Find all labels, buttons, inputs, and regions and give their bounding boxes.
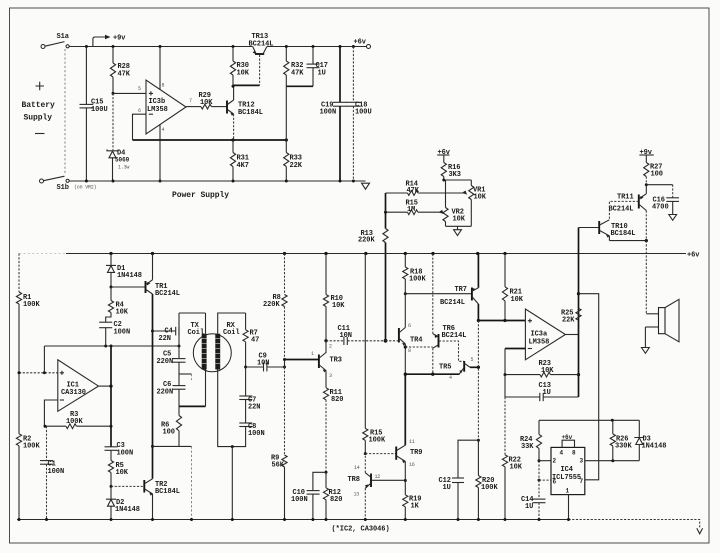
wire IC3b inverting input step [133, 114, 147, 140]
wire IC1 output column [109, 346, 112, 447]
svg-text:1: 1 [566, 488, 570, 495]
svg-text:4K7: 4K7 [237, 162, 249, 170]
Power Supply title [172, 191, 229, 200]
wire TR12 emitter column [233, 114, 235, 140]
svg-text:220K: 220K [263, 301, 280, 309]
svg-text:100N: 100N [48, 468, 65, 476]
svg-text:33K: 33K [521, 443, 534, 451]
svg-text:6: 6 [138, 108, 141, 114]
wire TR6 collector drop [432, 348, 434, 374]
resistor R31 [230, 140, 249, 181]
svg-text:10N: 10N [257, 360, 269, 368]
svg-text:LM358: LM358 [529, 338, 550, 346]
resistor R5 [108, 461, 128, 487]
wire pin2 [539, 460, 551, 462]
svg-text:Battery: Battery [22, 101, 56, 110]
wire TR9 collector riser [404, 374, 406, 445]
svg-text:8: 8 [572, 450, 576, 457]
wire RX coil bottom return [218, 370, 233, 447]
wire emitter bus y374 [405, 373, 459, 376]
battery - terminal [40, 179, 44, 183]
svg-text:10K: 10K [541, 367, 554, 375]
resistor R11 [323, 371, 343, 473]
svg-text:100: 100 [163, 429, 175, 437]
wire pot box top [444, 179, 472, 181]
node R27 bottom [645, 183, 648, 186]
transistor TR6 BC214L (IC? mirrored) [433, 325, 467, 348]
IC4 +6v supply bracket [562, 434, 575, 447]
resistor R21 [502, 254, 523, 323]
svg-text:1: 1 [311, 351, 314, 357]
svg-text:820: 820 [330, 496, 342, 504]
svg-text:TR9: TR9 [410, 449, 422, 457]
wire IC4 pin1 to 0v [568, 495, 570, 520]
svg-text:1K: 1K [411, 503, 420, 511]
wire R32/C17 bottom join [286, 86, 313, 140]
resistor R23 feedback [505, 360, 579, 377]
wire speaker feed column [646, 241, 658, 314]
svg-text:4: 4 [449, 375, 452, 381]
wire IC3a output column [577, 228, 580, 398]
resistor R33 [284, 140, 303, 181]
wire feedback bus y140 [133, 138, 288, 141]
resistor R2 [16, 373, 40, 520]
svg-text:TR5: TR5 [439, 364, 451, 372]
svg-text:Coil: Coil [188, 329, 205, 337]
svg-text:BC214L: BC214L [440, 299, 465, 307]
wire TR1 collector column [151, 294, 154, 479]
svg-text:22K: 22K [562, 317, 575, 325]
wire +6v regulated rail (PS right) [267, 45, 367, 48]
wire TX tank bottom [179, 405, 206, 407]
node R14/R15 join [384, 211, 387, 214]
resistor R30 [230, 47, 249, 87]
supply stub +9v above R27 [639, 149, 653, 163]
resistor R15 (VR2 wiper feed) [386, 200, 441, 215]
resistor R12 [323, 472, 342, 519]
wire TR11 emitter up [645, 185, 647, 194]
capacitor C2 [99, 321, 130, 346]
svg-text:6: 6 [408, 323, 411, 329]
svg-text:5: 5 [138, 86, 141, 92]
node R28/zener/+input [112, 92, 115, 95]
wire IC3a output [565, 334, 578, 336]
wire TR1 emitter up [152, 254, 154, 280]
wire IC3b V- pin [159, 124, 162, 182]
wire TR13 base (dotted) [233, 55, 260, 86]
wire IC3a - input [504, 349, 526, 377]
transistor TR3 (IC2) [311, 344, 342, 380]
svg-text:BC184L: BC184L [611, 230, 636, 238]
svg-text:5069: 5069 [115, 157, 130, 164]
wire TR8 collector riser [364, 454, 366, 473]
wire TR9 base [365, 453, 396, 455]
wire TR5 collector [470, 366, 480, 369]
node R18/TR4 collector/TR7 base [404, 292, 407, 295]
svg-text:2: 2 [553, 458, 557, 465]
svg-text:8: 8 [162, 83, 165, 89]
svg-text:IC3b: IC3b [149, 98, 166, 106]
svg-text:BC214L: BC214L [442, 332, 467, 340]
resistor R26 [610, 420, 632, 460]
wire positive feedback riser [43, 346, 45, 373]
svg-text:10K: 10K [511, 296, 524, 304]
node TR3 collector [324, 339, 327, 342]
svg-text:10K: 10K [453, 216, 466, 224]
transistor TR13 BC214L [249, 33, 274, 54]
resistor R7 [243, 313, 259, 367]
op-amp IC3a LM358 [525, 309, 565, 360]
wire IC1 output [99, 385, 112, 387]
svg-text:IC4: IC4 [561, 466, 573, 474]
resistor R10 [323, 254, 345, 341]
capacitor C12 [439, 440, 479, 519]
resistor R27 [644, 163, 663, 185]
diode D3 [634, 420, 666, 460]
resistor R3 feedback [44, 411, 113, 429]
resistor R32 [284, 47, 305, 87]
svg-text:100K: 100K [66, 418, 83, 426]
svg-text:5: 5 [471, 357, 474, 363]
transistor TR2 BC184L [144, 479, 180, 496]
svg-text:220N: 220N [157, 389, 174, 397]
svg-text:Power Supply: Power Supply [172, 191, 229, 200]
capacitor C10 [291, 472, 326, 519]
wire IC3a + input [478, 320, 525, 322]
svg-text:BC214L: BC214L [609, 206, 634, 214]
capacitor C16 [652, 185, 679, 215]
node R7/C9/C7 [244, 366, 247, 369]
svg-text:100K: 100K [23, 301, 40, 309]
wire tap column to 0v [191, 374, 193, 520]
wire IC1 + input [18, 371, 58, 374]
svg-text:TR3: TR3 [330, 357, 342, 365]
node pins 2-6 tie [538, 459, 541, 481]
wire zener column (dotted) [112, 93, 114, 150]
transistor TR12 BC184L [227, 100, 263, 117]
wire TR4 emitter column [404, 344, 407, 376]
node TR3 emitter / C10 / R12 [325, 471, 328, 474]
svg-text:+6v: +6v [687, 252, 700, 260]
resistor R9 [271, 367, 287, 520]
ground C16 [669, 215, 677, 221]
resistor R8 [263, 254, 287, 360]
svg-text:100N: 100N [291, 496, 308, 504]
battery supply label [22, 82, 56, 134]
svg-text:S1a: S1a [57, 33, 70, 41]
wire RX/C8 node to 0v [231, 445, 234, 519]
wire TR11 collector down [645, 211, 647, 241]
svg-text:+9v: +9v [113, 35, 126, 43]
svg-text:BC184L: BC184L [155, 488, 180, 496]
potentiometer VR2 [438, 180, 466, 226]
transistor TR1 BC214L [146, 280, 180, 298]
capacitor C15 [80, 47, 108, 182]
transistor TR11 BC214L [609, 194, 647, 214]
svg-text:47: 47 [251, 337, 259, 345]
svg-text:1U: 1U [525, 503, 533, 511]
resistor R22 [502, 397, 522, 520]
wire TR10 base from IC3a output column [579, 227, 600, 229]
resistor R16 [441, 163, 461, 181]
resistor R6 [161, 406, 182, 446]
svg-text:820: 820 [331, 396, 343, 404]
capacitor C4 [153, 327, 180, 343]
svg-text:1N4148: 1N4148 [642, 443, 667, 451]
resistor R28 [110, 47, 130, 94]
wire TR8 base [371, 479, 405, 481]
op-amp IC1 CA3130 [58, 360, 99, 412]
svg-text:22N: 22N [248, 404, 260, 412]
resistor R18 [403, 254, 427, 294]
svg-text:10K: 10K [116, 469, 129, 477]
resistor R1 [16, 254, 40, 373]
svg-text:10K: 10K [332, 302, 345, 310]
svg-text:BC184L: BC184L [238, 109, 263, 117]
svg-text:16: 16 [409, 462, 415, 468]
transistor TR8 (IC2, mirrored) [348, 465, 381, 498]
wire 0v PS rail [69, 180, 365, 183]
capacitor C3 [105, 442, 134, 461]
transistor TR9 (IC2) [396, 439, 422, 468]
TX coil winding [179, 313, 207, 406]
wire TR3 base [285, 359, 319, 361]
svg-text:56K: 56K [272, 462, 285, 470]
wire TR4 collector riser [404, 294, 406, 328]
capacitor C13 feedback [505, 375, 579, 402]
svg-text:TR7: TR7 [455, 286, 467, 294]
svg-text:6: 6 [553, 479, 557, 486]
wire C2/C4 bus y346 [44, 345, 180, 348]
svg-text:+6v: +6v [562, 434, 573, 441]
svg-text:14: 14 [354, 465, 360, 471]
wire TR7 collector column [477, 304, 480, 442]
svg-text:BC214L: BC214L [249, 40, 274, 48]
diode D1 [106, 254, 142, 288]
svg-text:47K: 47K [118, 71, 131, 79]
diode D2 [106, 486, 140, 519]
ground PS [362, 183, 370, 189]
node R8/C9/TR3 base [283, 358, 286, 369]
svg-text:100U: 100U [355, 109, 372, 117]
coupling circle around coils [193, 334, 231, 372]
svg-text:47K: 47K [291, 70, 304, 78]
wire TR6/TR5 base link [439, 341, 464, 361]
node R13/C11/TR4 base [384, 339, 399, 343]
resistor R15 (100K) [363, 254, 386, 454]
svg-text:BC214L: BC214L [155, 290, 180, 298]
wire TR3 collector riser [325, 341, 327, 347]
IC4 ICL7555 [551, 447, 585, 494]
svg-text:100N: 100N [114, 328, 131, 336]
svg-text:100N: 100N [248, 430, 265, 438]
svg-text:1U: 1U [443, 484, 451, 492]
ground speaker return [642, 348, 650, 354]
svg-text:100K: 100K [369, 436, 386, 444]
wire IC1 inverting step [44, 400, 57, 426]
svg-text:100N: 100N [320, 109, 337, 117]
transistor TR10 BC184L [599, 220, 635, 238]
capacitor C18 [347, 47, 372, 182]
svg-text:220N: 220N [157, 358, 174, 366]
RX coil winding [215, 313, 245, 370]
svg-text:2: 2 [329, 344, 332, 350]
wire R28 node to IC3b + input [113, 92, 146, 94]
svg-text:10K: 10K [474, 194, 487, 202]
wire R6 bottom to TR1/TR2 column [153, 445, 192, 447]
capacitor C5 [157, 351, 186, 386]
svg-text:1M: 1M [407, 206, 415, 214]
switch S1a [45, 33, 70, 48]
wire TR7 emitter to +6v [477, 254, 479, 288]
capacitor C6 [157, 381, 186, 406]
svg-text:100K: 100K [409, 276, 426, 284]
svg-text:22N: 22N [159, 335, 171, 343]
svg-text:220K: 220K [358, 236, 375, 244]
capacitor C17 [307, 47, 328, 87]
svg-text:7: 7 [580, 478, 584, 485]
op-amp IC3b LM358 [138, 80, 192, 134]
svg-text:100: 100 [651, 171, 663, 179]
svg-text:4: 4 [560, 450, 564, 457]
svg-text:IC3a: IC3a [531, 331, 548, 339]
wire alarm bus y420 [539, 419, 639, 422]
transistor TR7 BC214L [440, 286, 478, 307]
capacitor C14 [521, 480, 546, 519]
resistor R4 [106, 287, 129, 322]
resistor R24 [520, 420, 542, 460]
svg-text:330K: 330K [615, 443, 632, 451]
node R16 bottom [442, 179, 445, 182]
junction dots 0v rail [18, 518, 571, 521]
switch S1b [44, 176, 97, 192]
svg-text:+6v: +6v [354, 39, 367, 47]
resistor R14 (VR1 wiper feed) [386, 181, 465, 196]
svg-text:12: 12 [375, 474, 381, 480]
capacitor C1 [40, 426, 64, 519]
wire C5/C6 tap stub [179, 373, 192, 375]
capacitor C7 [239, 367, 260, 412]
IC2 note [332, 526, 390, 534]
svg-text:1.3w: 1.3w [118, 165, 129, 171]
svg-text:TR11: TR11 [617, 194, 634, 202]
svg-text:1N4148: 1N4148 [115, 506, 140, 514]
wire IC3b V+ pin [159, 47, 161, 90]
wire R25 top to IC4 pin7 [579, 294, 599, 480]
junction dots +9v rail [85, 45, 235, 48]
wire pin6 [539, 479, 551, 481]
svg-text:Coil: Coil [223, 329, 240, 337]
svg-text:7: 7 [189, 98, 192, 104]
ground pot wiper box [454, 226, 462, 235]
svg-text:1N4148: 1N4148 [117, 272, 142, 280]
zener diode D4 [107, 149, 130, 181]
svg-text:(*IC2, CA3046): (*IC2, CA3046) [332, 526, 390, 534]
wire R27 to C16 [646, 184, 672, 186]
wire speaker return [645, 327, 658, 347]
wire TR11 base link [609, 201, 638, 219]
svg-text:22K: 22K [290, 162, 303, 170]
resistor R20 [476, 440, 499, 519]
supply stub +6v above R16 [437, 149, 451, 163]
battery + terminal [41, 45, 45, 49]
transistor TR5 (IC2) [439, 357, 474, 381]
resistor R13 [358, 193, 388, 341]
svg-text:4: 4 [162, 127, 165, 133]
wire TR1 base [111, 286, 145, 288]
svg-text:TR8: TR8 [348, 476, 360, 484]
wire TR7 base [405, 293, 471, 295]
wire TR6 base feed y347 [405, 346, 433, 348]
svg-text:10K: 10K [237, 70, 250, 78]
capacitor C19 [320, 47, 348, 182]
wire TR6 emitter to +6v [432, 254, 434, 334]
wire +9v input rail [69, 46, 252, 48]
wire TR10 emitter / TR11 collector node [609, 236, 648, 242]
svg-text:100N: 100N [117, 449, 134, 457]
node R5/D2/TR2 base [110, 485, 113, 488]
potentiometer VR1 [462, 180, 487, 226]
svg-text:10K: 10K [510, 464, 523, 472]
svg-text:Supply: Supply [24, 114, 53, 123]
svg-text:10K: 10K [116, 309, 129, 317]
transistor TR4 (IC2) [399, 323, 423, 354]
capacitor C11 [326, 325, 386, 345]
svg-text:4700: 4700 [652, 203, 669, 211]
svg-text:ICL7555: ICL7555 [552, 474, 581, 482]
resistor R19 [403, 481, 422, 520]
capacitor C8 [232, 400, 264, 447]
svg-text:3K3: 3K3 [449, 171, 461, 179]
speaker LS1 [659, 299, 680, 342]
svg-text:S1b: S1b [57, 184, 69, 192]
svg-text:100K: 100K [481, 484, 498, 492]
wire pin3 output [585, 459, 640, 462]
capacitor C9 [246, 353, 285, 372]
wire TR9 emitter / R19 top [404, 461, 407, 482]
wire +6v main rail [19, 252, 700, 260]
wire TX tank left column [178, 313, 180, 358]
terminal +6v [354, 39, 371, 49]
node D1/R4/TR1 base [110, 286, 113, 289]
wire TR12 collector column [232, 85, 235, 100]
svg-text:11: 11 [409, 439, 415, 445]
svg-text:10N: 10N [340, 332, 352, 340]
wire TR2 emitter [152, 494, 154, 520]
svg-text:13: 13 [354, 492, 360, 498]
wire pot box bottom [446, 225, 472, 227]
svg-text:1U: 1U [318, 70, 326, 78]
+9v arrow tap [93, 35, 126, 47]
svg-text:TR4: TR4 [410, 337, 422, 345]
svg-text:10K: 10K [200, 99, 213, 107]
svg-text:LM358: LM358 [147, 106, 168, 114]
svg-text:100U: 100U [91, 106, 108, 114]
wire TR8 emitter [364, 488, 366, 519]
svg-text:100K: 100K [23, 443, 40, 451]
node R15/TR9 base/TR8 collector [364, 452, 367, 455]
svg-text:47K: 47K [407, 187, 420, 195]
switch gang dashed link [64, 49, 66, 175]
junction dots +6v main rail [109, 252, 506, 255]
svg-text:(on VR2): (on VR2) [74, 185, 97, 191]
resistor R25 [561, 308, 581, 324]
svg-text:CA3130: CA3130 [61, 389, 86, 397]
wire TR2 base [111, 485, 144, 487]
svg-text:8: 8 [408, 348, 411, 354]
svg-text:1U: 1U [543, 389, 551, 397]
svg-text:3: 3 [580, 458, 584, 465]
